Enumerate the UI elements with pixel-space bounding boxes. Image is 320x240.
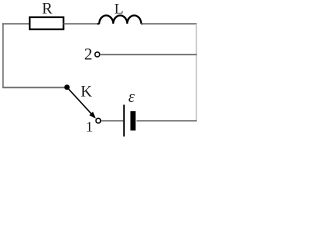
inductor L (97, 23, 143, 25)
svg-text:L: L (114, 2, 123, 18)
wire (141, 23, 197, 25)
svg-text:R: R (42, 1, 53, 18)
switch K (64, 85, 69, 90)
node 1 (96, 118, 101, 123)
wire (100, 54, 197, 56)
wire (101, 120, 123, 122)
wire (2, 87, 64, 89)
battery E (123, 105, 125, 137)
svg-text:K: K (81, 84, 93, 101)
wire (2, 24, 4, 88)
wire (64, 23, 100, 25)
wire (137, 120, 197, 122)
resistor R (30, 17, 64, 29)
svg-text:ε: ε (128, 87, 135, 106)
svg-text:2: 2 (84, 44, 92, 63)
wire (195, 24, 197, 121)
svg-text:1: 1 (86, 119, 94, 135)
wire (2, 23, 29, 25)
